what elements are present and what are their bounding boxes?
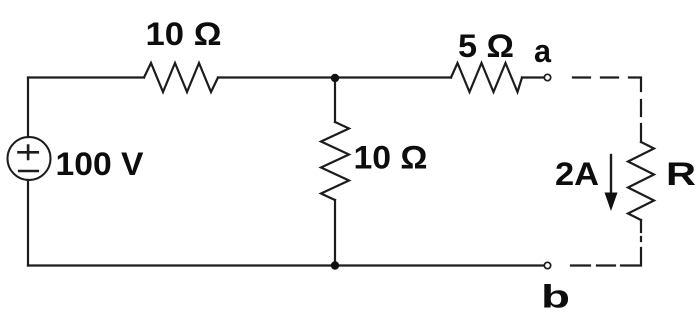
wire middle vertical upper lead (node to R 10ohm vertical): [334, 78, 336, 123]
svg-text:R: R: [666, 156, 696, 192]
svg-text:5 Ω: 5 Ω: [458, 28, 514, 64]
wire solid lead out of resistor R: [640, 220, 642, 232]
svg-text:100 V: 100 V: [56, 146, 145, 182]
svg-text:a: a: [534, 33, 551, 69]
voltage source V1 circle: [8, 137, 51, 180]
value label 100 V (source): [56, 146, 145, 182]
terminal b (open circle): [544, 262, 550, 268]
voltage source V1 plus sign: [19, 146, 38, 159]
wire middle vertical lower lead: [334, 200, 336, 266]
wire top-middle segment (R 10ohm to node junction and on to 5ohm): [218, 76, 451, 78]
value label 5 ohm (top right resistor): [458, 28, 514, 64]
label R (unknown resistor): [666, 156, 696, 192]
dashed wire top-right vertical down to R: [640, 100, 642, 116]
dashed wire bottom-right horizontal to terminal b: [571, 264, 615, 266]
svg-text:b: b: [541, 279, 570, 315]
svg-text:10 Ω: 10 Ω: [146, 16, 222, 52]
dashed wire bottom-right vertical to corner: [621, 237, 641, 266]
value label 10 ohm (top resistor): [146, 16, 222, 52]
resistor R (right, vertical zigzag): [628, 142, 654, 220]
resistor 10 ohm (top, horizontal zigzag): [144, 63, 218, 92]
wire left vertical (top wire down to source V1): [27, 78, 29, 138]
voltage source V1 minus sign: [19, 170, 38, 173]
svg-text:2A: 2A: [555, 156, 599, 192]
current arrow 2A (head): [605, 193, 618, 212]
resistor 5 ohm (top, horizontal zigzag): [451, 63, 522, 92]
node junction dot (top, middle): [331, 74, 339, 82]
wire from 5 ohm to terminal a: [522, 76, 544, 78]
svg-text:10 Ω: 10 Ω: [354, 140, 428, 176]
label 2A (current): [555, 156, 599, 192]
wire top-left segment (source to R 10ohm): [28, 76, 144, 78]
node label a: [534, 33, 551, 69]
dashed wire terminal a to top-right corner: [573, 78, 641, 92]
wire solid lead into resistor R: [640, 124, 642, 142]
wire left vertical (source V1 down to bottom wire): [27, 180, 29, 266]
node label b: [541, 279, 570, 315]
node junction dot (bottom, middle): [331, 261, 339, 269]
current arrow 2A (shaft): [610, 155, 612, 196]
wire bottom segment (source to terminal b): [28, 264, 544, 266]
resistor 10 ohm (middle, vertical zigzag): [321, 122, 349, 200]
terminal a (open circle): [544, 74, 550, 80]
value label 10 ohm (middle resistor): [354, 140, 428, 176]
